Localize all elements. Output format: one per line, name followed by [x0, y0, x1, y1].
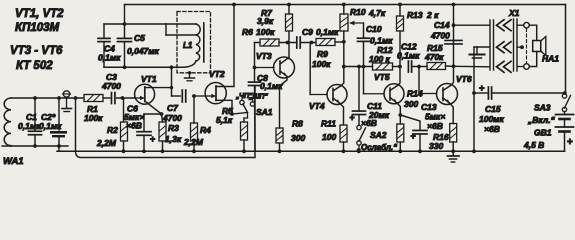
svg-text:VT1: VT1 — [141, 74, 157, 84]
svg-text:R4: R4 — [200, 125, 211, 135]
svg-text:+: + — [411, 131, 416, 141]
svg-text:VT6: VT6 — [456, 74, 472, 84]
svg-text:VT5: VT5 — [374, 72, 390, 82]
svg-text:×6В: ×6В — [361, 118, 377, 128]
svg-text:+: + — [479, 83, 485, 94]
svg-text:5мк×: 5мк× — [425, 112, 445, 122]
svg-text:+: + — [350, 113, 355, 123]
svg-text:2,2М: 2,2М — [183, 137, 204, 147]
svg-text:4,5 В: 4,5 В — [523, 140, 544, 150]
svg-text:100 к: 100 к — [369, 54, 391, 64]
svg-text:„Ослабл.“: „Ослабл.“ — [356, 143, 397, 152]
svg-text:WA1: WA1 — [3, 156, 24, 167]
svg-text:5,1к: 5,1к — [216, 115, 233, 125]
svg-text:R6: R6 — [242, 27, 253, 37]
svg-text:SA2: SA2 — [370, 130, 387, 140]
svg-text:R2: R2 — [107, 125, 118, 135]
svg-text:X1: X1 — [508, 8, 520, 18]
svg-text:100: 100 — [322, 132, 336, 142]
svg-text:GB1: GB1 — [534, 128, 552, 138]
svg-text:„Вкл.“: „Вкл.“ — [527, 115, 556, 125]
svg-text:0,1мк: 0,1мк — [18, 121, 41, 131]
svg-text:4700: 4700 — [162, 113, 182, 123]
svg-text:VT1, VT2: VT1, VT2 — [15, 8, 64, 20]
svg-text:300: 300 — [404, 99, 418, 109]
svg-text:0,047мк: 0,047мк — [127, 46, 160, 56]
svg-text:R10: R10 — [350, 7, 366, 17]
svg-text:R11: R11 — [321, 119, 336, 129]
svg-text:100мк: 100мк — [479, 114, 504, 124]
svg-text:SA1: SA1 — [256, 107, 273, 117]
svg-text:VT2: VT2 — [209, 69, 225, 79]
svg-text:100к: 100к — [256, 27, 275, 37]
svg-text:300: 300 — [291, 133, 305, 143]
svg-text:330: 330 — [429, 141, 443, 151]
svg-text:4700: 4700 — [430, 31, 450, 41]
svg-text:2 к: 2 к — [426, 10, 439, 20]
svg-text:„ШП“: „ШП“ — [248, 94, 268, 101]
svg-text:С5: С5 — [134, 33, 145, 43]
svg-text:С7: С7 — [167, 103, 179, 113]
svg-text:VT3: VT3 — [256, 51, 272, 61]
svg-text:С9: С9 — [302, 27, 313, 37]
svg-text:4700: 4700 — [101, 81, 121, 91]
svg-text:С15: С15 — [485, 104, 501, 114]
svg-text:R9: R9 — [317, 49, 328, 59]
svg-text:100к: 100к — [312, 59, 331, 69]
svg-text:SA3: SA3 — [534, 103, 551, 113]
svg-text:0,1мк: 0,1мк — [370, 36, 393, 46]
svg-text:0,1мк: 0,1мк — [98, 53, 121, 63]
svg-text:КП103М: КП103М — [15, 22, 60, 34]
svg-text:НА1: НА1 — [542, 54, 559, 64]
svg-text:2,2М: 2,2М — [96, 138, 117, 148]
svg-text:КТ 502: КТ 502 — [16, 60, 53, 72]
svg-text:R8: R8 — [292, 119, 303, 129]
svg-text:470к: 470к — [424, 52, 444, 62]
svg-text:С14: С14 — [434, 20, 450, 30]
svg-text:3,9к: 3,9к — [257, 16, 274, 26]
svg-text:+: + — [567, 137, 573, 148]
svg-text:100к: 100к — [84, 113, 103, 123]
svg-text:4,7к: 4,7к — [368, 8, 386, 18]
svg-text:L1: L1 — [183, 41, 193, 50]
svg-text:VT3 - VT6: VT3 - VT6 — [10, 45, 63, 57]
svg-text:+: + — [150, 134, 155, 144]
svg-text:0,1мк: 0,1мк — [397, 51, 420, 61]
svg-text:R13: R13 — [407, 10, 423, 20]
svg-text:0,1мк: 0,1мк — [39, 121, 62, 131]
svg-text:×6В: ×6В — [484, 124, 500, 134]
svg-text:×6В: ×6В — [126, 121, 142, 131]
svg-text:VT4: VT4 — [309, 101, 325, 111]
svg-text:1,3к: 1,3к — [165, 134, 182, 144]
svg-text:С10: С10 — [366, 24, 382, 34]
svg-text:С13: С13 — [421, 102, 437, 112]
svg-text:0,1мк: 0,1мк — [316, 27, 339, 37]
svg-text:R3: R3 — [168, 123, 179, 133]
svg-text:×6В: ×6В — [427, 121, 443, 131]
